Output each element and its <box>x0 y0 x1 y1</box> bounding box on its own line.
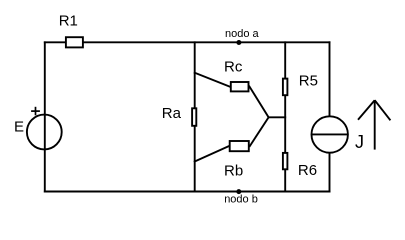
svg-text:nodo b: nodo b <box>224 194 258 206</box>
resistor R1 <box>59 13 83 48</box>
svg-text:R1: R1 <box>59 13 78 30</box>
node A <box>225 28 260 45</box>
resistor Ra <box>162 105 197 126</box>
wire R5-R6 branch vertical <box>284 42 286 191</box>
wire diagonal from Rb right to junction <box>250 117 269 146</box>
resistor R6 <box>283 153 317 179</box>
svg-text:nodo a: nodo a <box>225 28 260 40</box>
svg-text:E: E <box>14 118 24 135</box>
svg-text:J: J <box>355 132 364 152</box>
svg-text:R6: R6 <box>298 162 317 179</box>
wire middle vertical <box>194 42 196 191</box>
svg-text:R5: R5 <box>299 73 318 90</box>
wire diagonal from Rc right to junction <box>250 87 269 118</box>
wire top <box>45 41 330 43</box>
wire junction to branch <box>269 116 286 118</box>
svg-text:Rb: Rb <box>224 163 243 180</box>
resistor Rc <box>224 58 249 91</box>
current source J <box>312 116 365 152</box>
node B <box>224 189 258 205</box>
resistor R5 <box>283 73 318 96</box>
svg-text:Ra: Ra <box>162 105 182 122</box>
wire diagonal to Rb left <box>195 146 229 161</box>
svg-text:Rc: Rc <box>224 58 243 75</box>
resistor Rb <box>224 141 249 180</box>
wire diagonal to Rc left <box>195 73 230 87</box>
voltage source E <box>14 107 62 150</box>
wire bottom <box>45 191 330 193</box>
wire right vertical lower <box>329 153 331 191</box>
current direction arrow <box>358 100 390 149</box>
wire right vertical upper <box>329 42 331 115</box>
wire left vertical <box>44 42 46 191</box>
